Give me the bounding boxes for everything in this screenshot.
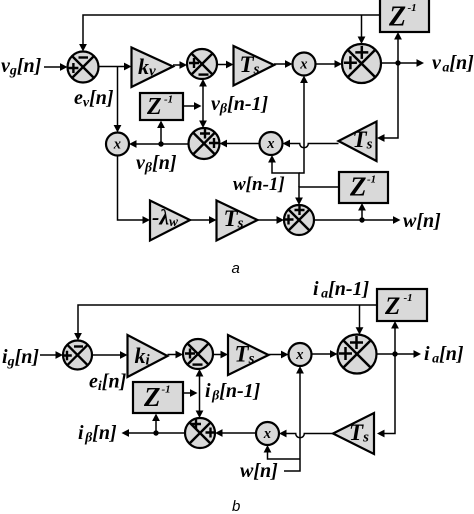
wire: w node up into Z^-1 w (a) [358, 203, 366, 220]
svg-text:-1: -1 [164, 94, 173, 106]
wire: xMid output to summer vbeta (a) [220, 140, 260, 148]
svg-text:iβ[n]: iβ[n] [78, 422, 117, 446]
wire: summer2 to Ts gain (a top) [217, 61, 234, 69]
svg-text:ia[n-1]: ia[n-1] [313, 278, 370, 302]
svg-text:b: b [232, 498, 240, 514]
wire: Z^-1 w output (w[n-1]) left, down into w summer and up to both multipliers [268, 76, 339, 206]
gain -lambda_w triangle [150, 201, 190, 241]
wire: ibeta summer output left to ibeta[n] with node [122, 429, 186, 437]
wire: va node up into Z^-1 top (a) [394, 32, 402, 63]
wire: vg input arrow into summer 1 (a) [44, 63, 68, 71]
svg-text:a: a [232, 260, 240, 277]
delay block Z^-1 mid (a) [140, 93, 183, 120]
svg-text:ei[n]: ei[n] [89, 371, 127, 395]
wire: summer2 to Ts gain (b top) [213, 351, 228, 359]
svg-text:vg[n]: vg[n] [1, 55, 42, 79]
wire: ig input arrow into summer 1 (b) [40, 351, 63, 359]
wire: ia node up into Z^-1 top (b) [391, 321, 399, 354]
wire: feedback from Z^-1 output across top into first summer (b) [74, 305, 377, 341]
wire: Ts to multiplier xTop (a) [274, 60, 293, 68]
label a [232, 260, 240, 277]
wire: output summer to va[n] with node [381, 59, 424, 67]
node va[n] output label [432, 52, 474, 76]
gain Ts triangle (a top) [234, 46, 275, 86]
gain Ts feedback triangle (a right, points left) [339, 122, 377, 162]
node ibeta[n-1] label [205, 380, 261, 404]
summing junction S2b (plus ki, minus ibeta[n-1]) [183, 339, 213, 369]
delay block Z^-1 w (a bottom right) [339, 172, 388, 204]
wire: feedback from Z^-1 output across top into first summer (a) [79, 15, 380, 52]
svg-text:x: x [113, 137, 121, 153]
wire: kv to summer 2 (a) [173, 61, 187, 69]
svg-text:-1: -1 [408, 2, 417, 14]
svg-text:vβ[n-1]: vβ[n-1] [211, 93, 269, 117]
node w[n] output label [403, 210, 441, 232]
svg-text:Z: Z [146, 94, 162, 120]
wire: ibeta[n-1] vertical line into summer2 (minus) and ibeta summer (plus) [196, 369, 204, 418]
wire: ibeta node up into Z^-1 mid (b) [152, 414, 160, 434]
svg-text:ia[n]: ia[n] [424, 343, 464, 367]
wire: -lambda to Ts (a bottom) [190, 216, 217, 224]
svg-text:-1: -1 [404, 292, 413, 304]
summing junction S1a (vg minus va feedback) [68, 52, 99, 83]
multiplier xTopB (b) [289, 343, 312, 366]
wire: vbeta[n-1] vertical line into summer2 (minus) and vbeta summer (plus) [199, 79, 207, 128]
multiplier xLowB (b) [256, 422, 279, 445]
svg-text:Ts: Ts [224, 206, 244, 232]
node ev[n] label [74, 87, 114, 111]
node w[n] input label [240, 460, 278, 482]
node vbeta[n-1] label [211, 93, 269, 117]
gain Ts triangle (b top) [228, 335, 269, 375]
multiplier xLeft (a) [106, 133, 129, 156]
summing junction SBa (vbeta accumulator) [189, 128, 220, 159]
wire: vbeta node up into Z^-1 mid (a) [157, 121, 165, 145]
svg-text:w[n]: w[n] [403, 210, 441, 232]
svg-text:Z: Z [388, 2, 406, 33]
summing junction SBb (ibeta accumulator) [185, 418, 216, 448]
gain Ts triangle (a bottom) [217, 201, 258, 241]
gain kv triangle [132, 48, 174, 88]
label b [232, 498, 240, 514]
svg-text:-λ: -λ [152, 205, 169, 230]
svg-text:iβ[n-1]: iβ[n-1] [205, 380, 261, 404]
node w[n-1] label [233, 174, 285, 195]
svg-text:va[n]: va[n] [432, 52, 474, 76]
wire: xLowB output to summer ibeta (b) [215, 429, 256, 437]
svg-text:ev[n]: ev[n] [74, 87, 114, 111]
svg-text:x: x [295, 347, 303, 363]
gain ki triangle [128, 335, 168, 377]
wire: branch from top feedback down into output summer (b) [356, 305, 364, 335]
wire: ki to summer 2 (b) [168, 351, 184, 359]
svg-text:Z: Z [143, 382, 161, 412]
wire: xLeft output down and right into -lambda gain (a) [118, 156, 151, 224]
wire: output summer to ia[n] with node [377, 350, 422, 358]
svg-text:w: w [169, 214, 179, 229]
multiplier xTop (a) [293, 53, 316, 76]
wire: ev branch down into multiplier xLeft (a) [114, 67, 122, 133]
wire: w summer output to w[n] with node [314, 216, 401, 224]
summing junction S1b (ig minus ia feedback) [62, 341, 92, 370]
wire: va node down into feedback Ts (a) [377, 63, 398, 142]
wire: vbeta summer output to xLeft with node (a) [129, 140, 189, 148]
delay block Z^-1 mid (b) [133, 382, 183, 413]
wire: xTopB to output summer (b) [312, 350, 338, 358]
delay block Z^-1 top-right (b) [377, 289, 427, 321]
summing junction S2a (plus kv, minus vbeta[n-1]) [187, 49, 217, 79]
svg-text:x: x [299, 57, 307, 73]
node ia[n] output label [424, 343, 464, 367]
multiplier xMid (a) [260, 132, 283, 155]
wire: Ts feedback output to multiplier xMid with hop over w[n-1] line (a) [283, 140, 339, 148]
wire: ia node down into feedback Ts (b) [377, 354, 395, 437]
node vg input label [1, 55, 42, 79]
output summing junction SOa (va accumulator) [342, 44, 381, 83]
summing junction SWa (w accumulator) [284, 205, 315, 235]
gain Ts feedback triangle (b right, points left) [333, 413, 374, 454]
svg-text:Z: Z [384, 293, 400, 320]
svg-text:Z: Z [349, 172, 367, 202]
svg-text:ig[n]: ig[n] [2, 346, 39, 370]
svg-text:x: x [263, 426, 271, 442]
wire: summer1 output to ki gain (b) [92, 351, 128, 359]
node ei[n] label [89, 371, 127, 395]
output summing junction SOb (ia accumulator) [338, 335, 377, 374]
wire: summer1 output to kv gain (a) [99, 63, 132, 71]
wire: Ts to multiplier xTopB (b) [269, 351, 289, 359]
wire: Z^-1 mid output (vbeta[n-1]) right into vertical line [183, 102, 202, 110]
node ig input label [2, 346, 39, 370]
svg-text:vβ[n]: vβ[n] [136, 152, 177, 176]
svg-text:w[n]: w[n] [240, 460, 278, 482]
svg-text:Ts: Ts [235, 342, 255, 368]
svg-text:w[n-1]: w[n-1] [233, 174, 285, 195]
node ibeta[n] output label [78, 422, 117, 446]
delay block Z^-1 top-right (a) [380, 0, 429, 33]
svg-text:-1: -1 [162, 384, 171, 396]
wire: w[n] input up into multiplier xTopB with branch into xLowB (b) [264, 366, 304, 471]
wire: Ts bottom to w summer (a) [258, 216, 285, 224]
wire: Ts feedback output to multiplier xLowB with hop over w[n] line (b) [279, 430, 333, 438]
wire: Z^-1 mid output (ibeta[n-1]) right into vertical line [183, 389, 198, 397]
wire: branch from top feedback down into output summer (a) [358, 15, 366, 44]
svg-text:-1: -1 [367, 174, 376, 186]
wire: xTop to output summer (a) [316, 60, 343, 68]
node vbeta[n] label [136, 152, 177, 176]
node ia[n-1] label [313, 278, 370, 302]
svg-text:x: x [266, 136, 274, 152]
